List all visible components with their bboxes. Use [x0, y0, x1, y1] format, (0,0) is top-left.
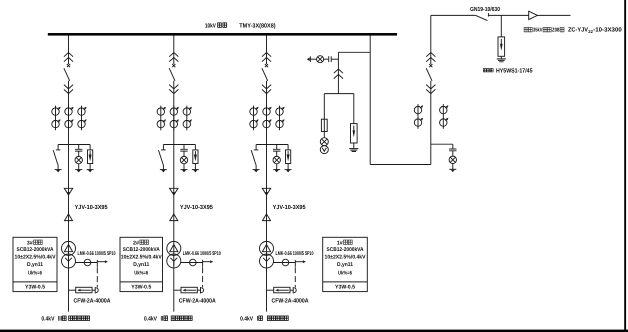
- svg-text:CFW-2A-4000A: CFW-2A-4000A: [272, 298, 310, 305]
- svg-text:-10-3X300: -10-3X300: [593, 27, 622, 34]
- svg-text:10±2X2.5%/0.4kV: 10±2X2.5%/0.4kV: [121, 255, 162, 261]
- svg-text:HY5WS1-17/45: HY5WS1-17/45: [496, 67, 533, 74]
- svg-text:Y3W-0.5: Y3W-0.5: [335, 285, 355, 291]
- svg-text:0.4kV: 0.4kV: [240, 316, 253, 323]
- svg-text:CFW-2A-4000A: CFW-2A-4000A: [74, 298, 112, 305]
- svg-text:CFW-2A-4000A: CFW-2A-4000A: [179, 298, 217, 305]
- svg-text:10±2X2.5%/0.4kV: 10±2X2.5%/0.4kV: [325, 255, 366, 261]
- svg-text:Z08: Z08: [552, 28, 559, 34]
- svg-text:SCB12-2000kVA: SCB12-2000kVA: [123, 247, 160, 253]
- svg-text:TMY-3X(80X8): TMY-3X(80X8): [239, 22, 275, 29]
- svg-text:GN19-10/630: GN19-10/630: [470, 6, 501, 13]
- svg-text:YJV-10-3X95: YJV-10-3X95: [180, 204, 214, 211]
- svg-text:D,yn11: D,yn11: [133, 262, 149, 268]
- svg-text:SCB12-2000kVA: SCB12-2000kVA: [17, 247, 54, 253]
- svg-text:0.4kV: 0.4kV: [41, 316, 54, 323]
- svg-text:Uk%=6: Uk%=6: [338, 270, 352, 276]
- svg-text:10±2X2.5%/0.4kV: 10±2X2.5%/0.4kV: [15, 255, 56, 261]
- svg-text:10kV: 10kV: [205, 22, 216, 29]
- svg-text:D,yn11: D,yn11: [337, 262, 353, 268]
- svg-text:LMK-0.66 1000/5 5P10: LMK-0.66 1000/5 5P10: [78, 251, 116, 257]
- svg-text:ZC-YJV: ZC-YJV: [568, 27, 588, 34]
- svg-text:LMK-0.66 1000/5 5P10: LMK-0.66 1000/5 5P10: [276, 251, 314, 257]
- svg-text:Y3W-0.5: Y3W-0.5: [25, 285, 45, 291]
- svg-text:LMK-0.66 1000/5 5P10: LMK-0.66 1000/5 5P10: [183, 251, 221, 257]
- svg-text:YJV-10-3X95: YJV-10-3X95: [273, 204, 307, 211]
- svg-text:YJV-10-3X95: YJV-10-3X95: [75, 204, 109, 211]
- svg-text:0.4kV: 0.4kV: [144, 316, 157, 323]
- svg-text:Uk%=6: Uk%=6: [28, 270, 42, 276]
- svg-text:Uk%=6: Uk%=6: [134, 270, 148, 276]
- svg-text:2#: 2#: [133, 240, 139, 246]
- svg-text:3#: 3#: [27, 240, 33, 246]
- svg-text:Y3W-0.5: Y3W-0.5: [131, 285, 151, 291]
- svg-text:D,yn11: D,yn11: [27, 262, 43, 268]
- svg-text:1#: 1#: [337, 240, 343, 246]
- svg-text:SCB12-2000kVA: SCB12-2000kVA: [327, 247, 364, 253]
- svg-text:35kV: 35kV: [533, 28, 543, 34]
